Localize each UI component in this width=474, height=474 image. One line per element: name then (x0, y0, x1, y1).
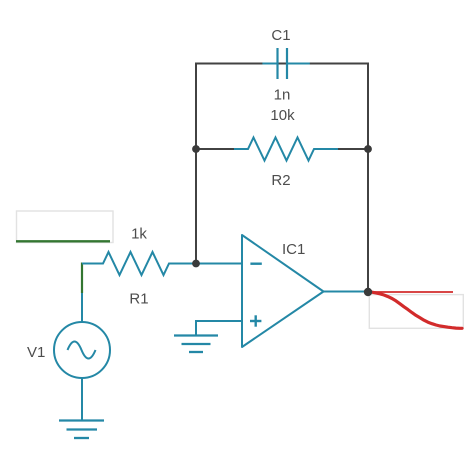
svg-text:IC1: IC1 (282, 241, 305, 258)
voltage source V1 (54, 322, 110, 378)
resistor R2 (234, 138, 338, 161)
resistor R1 (82, 252, 242, 275)
wire: R2 right lead stub (gray) (338, 148, 368, 150)
svg-text:1k: 1k (131, 226, 147, 243)
node: output junction (364, 288, 372, 296)
svg-text:C1: C1 (271, 27, 290, 44)
node: junction R2 right (364, 145, 372, 153)
wire: V1 to R1 corner (blue vertical) (81, 264, 83, 323)
svg-text:V1: V1 (27, 344, 45, 361)
probe box (input, left) (17, 211, 114, 243)
input probe trace (flat green) (16, 240, 110, 242)
probe box (output, right) (369, 295, 463, 329)
wire: V1 bottom to ground (81, 378, 83, 421)
output probe baseline trace (thin red) (368, 291, 453, 293)
output probe trace (thick red sigmoid) (368, 292, 462, 329)
ground (op-amp non-inverting input) (174, 336, 218, 353)
wire: green probe highlight segment on input net (81, 263, 83, 294)
wire: R2 left lead stub (gray) (196, 148, 234, 150)
capacitor C1 (262, 48, 309, 79)
wire: non-inverting input to ground (196, 321, 242, 336)
svg-text:R1: R1 (129, 291, 148, 308)
node: junction at inverting input (192, 260, 200, 268)
wire: op-amp output (blue) (324, 291, 369, 293)
node: junction R2 left (192, 145, 200, 153)
svg-text:R2: R2 (271, 172, 290, 189)
ground (V1) (59, 421, 104, 439)
wire: feedback loop (gray) left vertical, top horizontal, right vertical (196, 64, 368, 293)
svg-text:1n: 1n (274, 87, 291, 104)
svg-text:10k: 10k (270, 107, 295, 124)
op-amp IC1 (242, 235, 324, 347)
